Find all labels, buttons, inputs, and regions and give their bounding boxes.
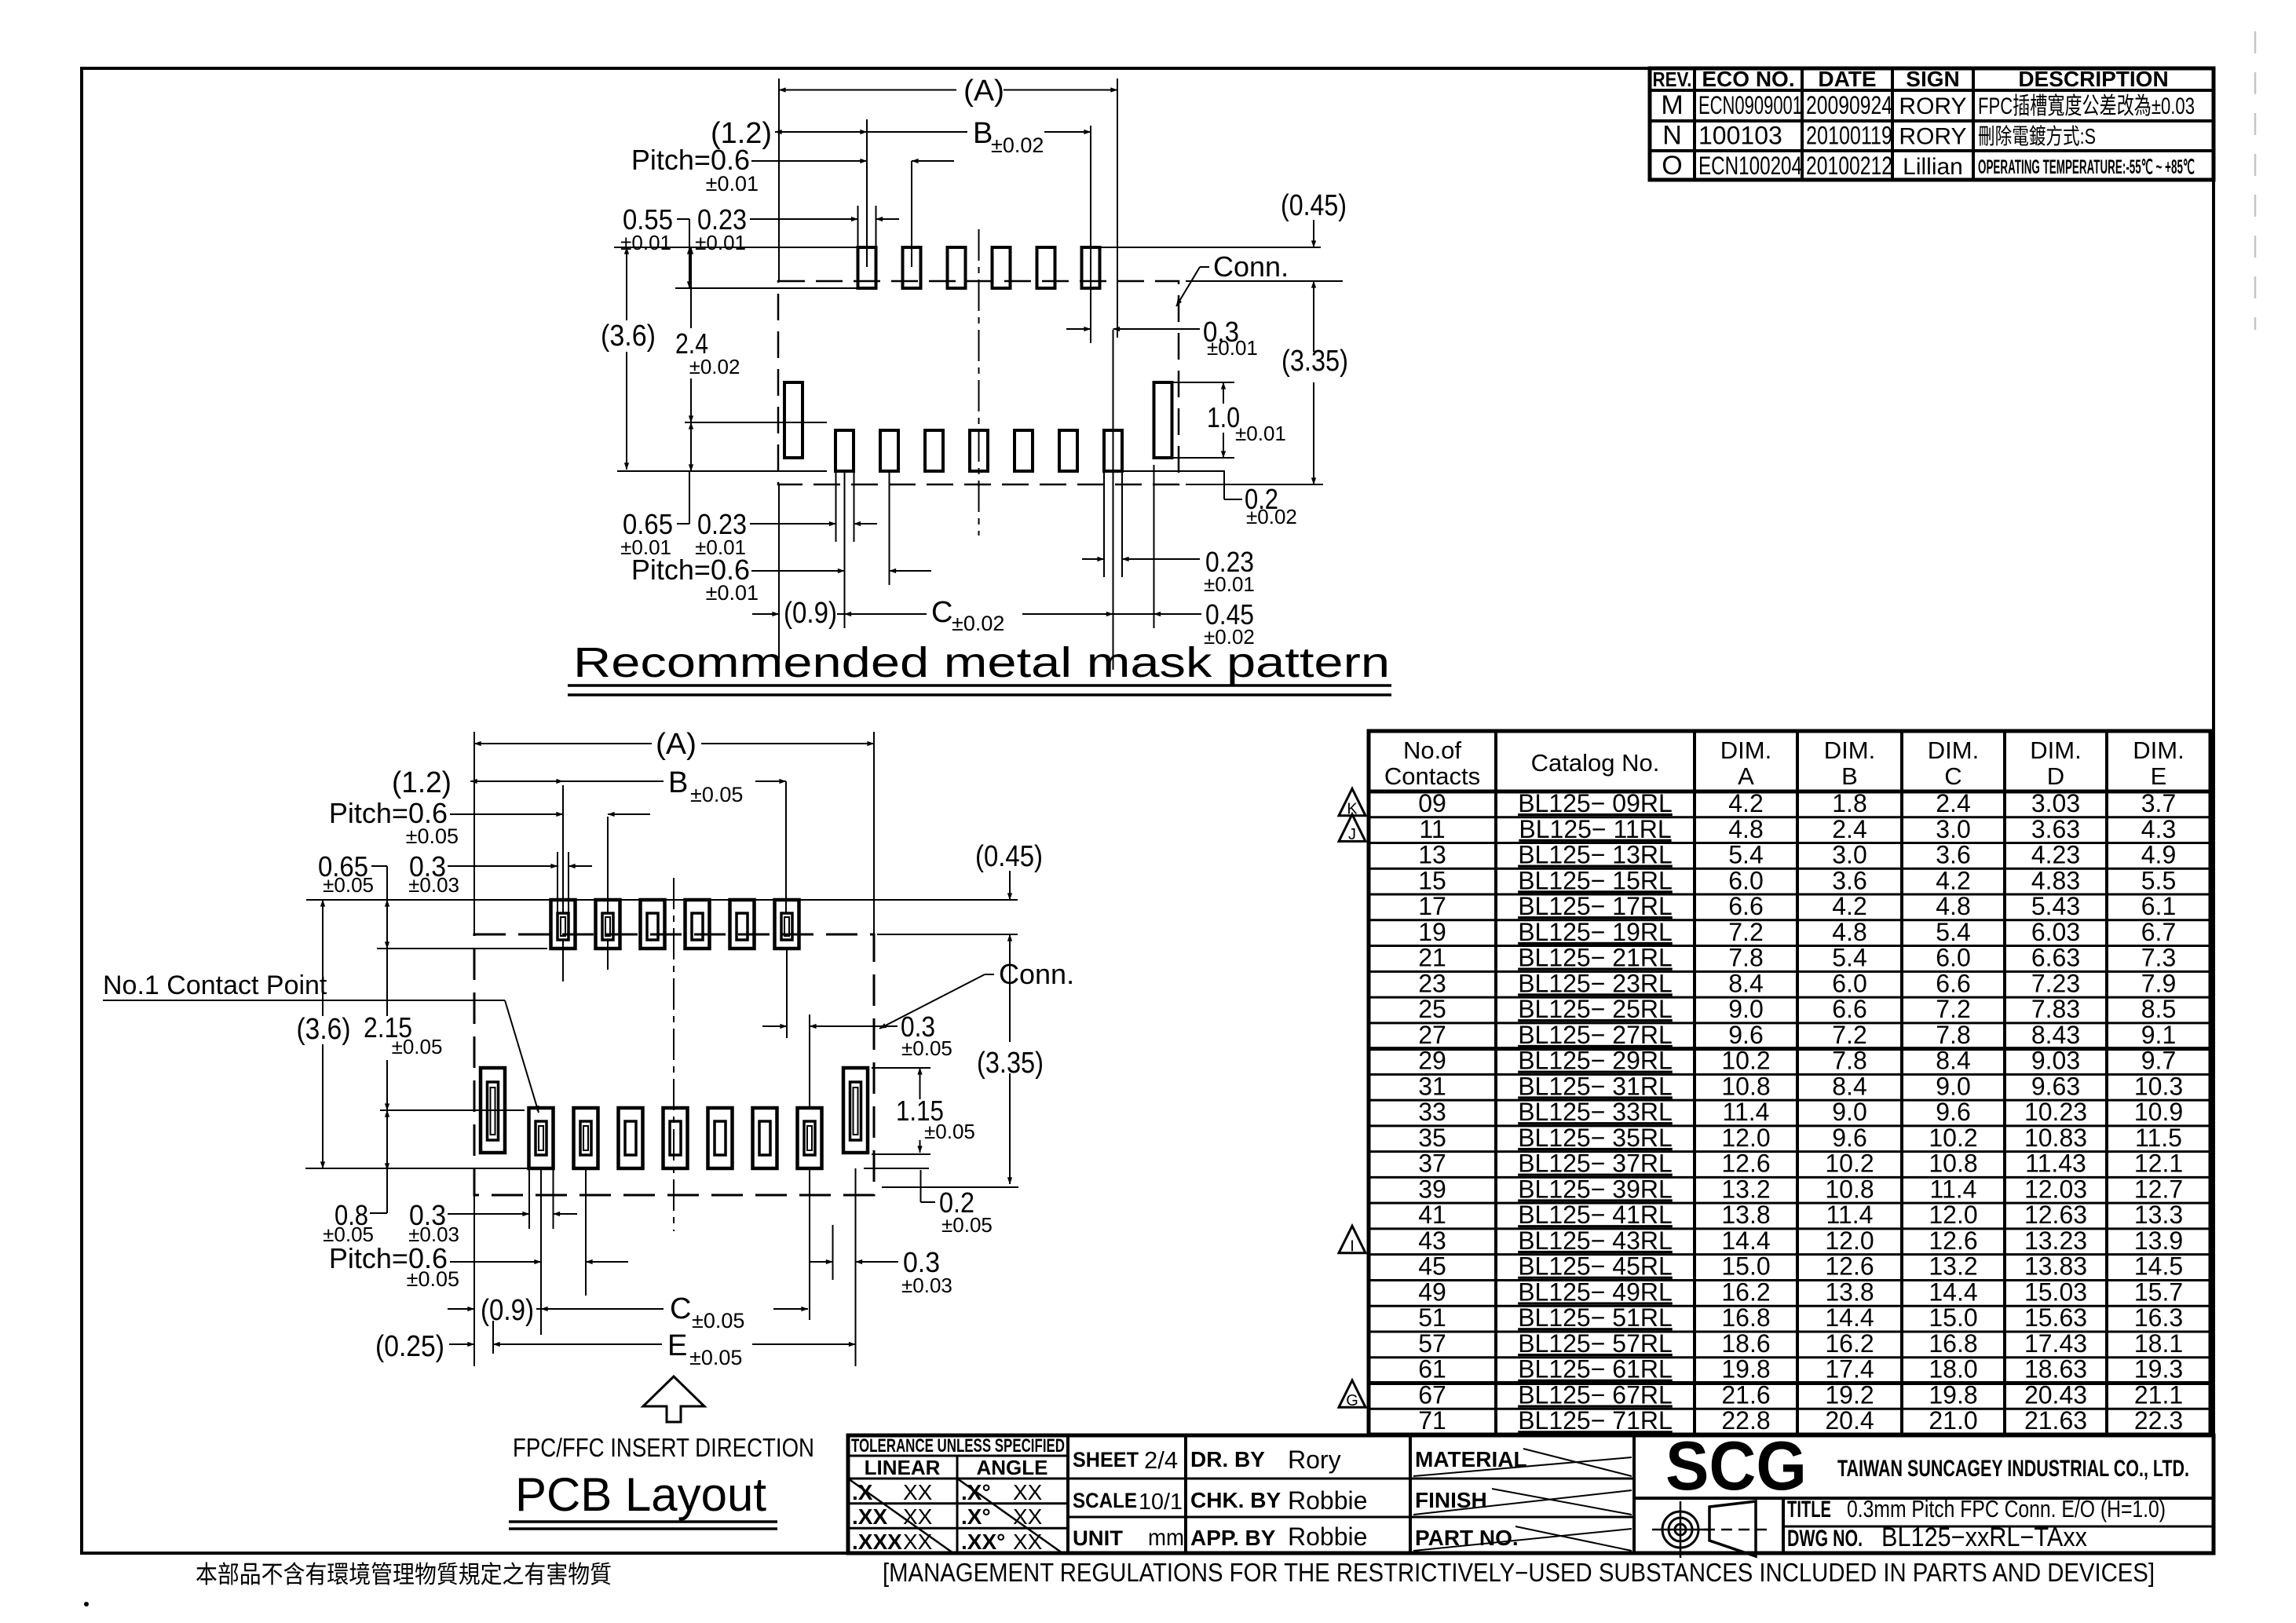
svg-text:XX: XX — [903, 1530, 933, 1554]
dim pitch top — [751, 160, 867, 162]
svg-text:BL125− 29RL: BL125− 29RL — [1518, 1047, 1673, 1075]
svg-text:4.2: 4.2 — [1728, 789, 1763, 817]
svg-text:.X°: .X° — [961, 1504, 991, 1529]
svg-text:5.5: 5.5 — [2141, 866, 2176, 894]
svg-text:No.of: No.of — [1403, 737, 1461, 764]
svg-text:10.2: 10.2 — [1825, 1150, 1874, 1178]
svg-text:14.4: 14.4 — [1825, 1303, 1874, 1332]
extension lines — [778, 79, 780, 281]
svg-text:19.2: 19.2 — [1825, 1380, 1874, 1409]
dim (1.2) pcb — [470, 780, 563, 782]
svg-text:±0.05: ±0.05 — [323, 873, 374, 897]
svg-text:7.23: 7.23 — [2031, 969, 2080, 997]
svg-text:ECN0909001: ECN0909001 — [1698, 91, 1802, 119]
svg-text:10.23: 10.23 — [2024, 1098, 2087, 1126]
svg-text:2.4: 2.4 — [1936, 789, 1970, 817]
svg-text:BL125− 09RL: BL125− 09RL — [1518, 789, 1673, 817]
svg-text:±0.01: ±0.01 — [1207, 336, 1258, 360]
svg-text:ECO NO.: ECO NO. — [1702, 67, 1794, 91]
svg-text:5.4: 5.4 — [1832, 944, 1866, 972]
svg-text:D: D — [2047, 762, 2064, 790]
svg-text:PART NO.: PART NO. — [1415, 1526, 1519, 1550]
svg-text:Catalog No.: Catalog No. — [1531, 749, 1660, 777]
svg-text:BL125− 51RL: BL125− 51RL — [1518, 1303, 1673, 1332]
svg-text:±0.05: ±0.05 — [924, 1120, 975, 1143]
svg-text:J: J — [1348, 826, 1356, 843]
svg-text:12.63: 12.63 — [2024, 1201, 2087, 1229]
svg-text:XX: XX — [1013, 1504, 1043, 1529]
svg-text:43: 43 — [1418, 1226, 1446, 1255]
svg-text:09: 09 — [1418, 789, 1446, 817]
svg-text:5.43: 5.43 — [2031, 892, 2080, 920]
dim (1.2) — [775, 131, 867, 133]
svg-text:10.3: 10.3 — [2134, 1072, 2183, 1100]
svg-text:BL125− 13RL: BL125− 13RL — [1518, 841, 1673, 869]
svg-text:(0.45): (0.45) — [975, 840, 1043, 873]
svg-text:12.0: 12.0 — [1825, 1226, 1874, 1255]
svg-text:3.6: 3.6 — [1832, 866, 1866, 894]
material finish part cells — [1632, 1435, 1636, 1553]
svg-text:31: 31 — [1418, 1072, 1446, 1100]
svg-text:9.6: 9.6 — [1832, 1124, 1866, 1152]
svg-text:DIM.: DIM. — [2133, 737, 2184, 764]
vertical centerline — [978, 229, 980, 536]
svg-text:Pitch=0.6: Pitch=0.6 — [631, 144, 750, 176]
revision table — [1650, 68, 2214, 180]
svg-text:TOLERANCE UNLESS SPECIFIED: TOLERANCE UNLESS SPECIFIED — [851, 1435, 1065, 1457]
svg-text:±0.01: ±0.01 — [1204, 572, 1255, 596]
svg-text:15.03: 15.03 — [2024, 1278, 2087, 1306]
svg-text:BL125− 19RL: BL125− 19RL — [1518, 918, 1673, 946]
svg-text:6.7: 6.7 — [2141, 918, 2176, 946]
svg-text:11.4: 11.4 — [1930, 1175, 1977, 1203]
company logo block — [1634, 1497, 2214, 1500]
svg-text:16.8: 16.8 — [1721, 1303, 1770, 1332]
dim (A) pcb — [474, 743, 652, 744]
svg-text:21.0: 21.0 — [1929, 1406, 1977, 1435]
svg-text:.XXX: .XXX — [852, 1530, 902, 1554]
svg-text:12.0: 12.0 — [1721, 1124, 1770, 1152]
svg-text:±0.02: ±0.02 — [991, 133, 1044, 157]
svg-text:15.0: 15.0 — [1721, 1252, 1770, 1281]
svg-text:21.1: 21.1 — [2134, 1380, 2183, 1409]
svg-text:刪除電鍍方式:S: 刪除電鍍方式:S — [1978, 124, 2096, 148]
svg-text:19.8: 19.8 — [1929, 1380, 1977, 1409]
svg-text:O: O — [1662, 151, 1682, 181]
svg-text:6.6: 6.6 — [1936, 969, 1970, 997]
svg-text:BL125− 31RL: BL125− 31RL — [1518, 1072, 1673, 1100]
svg-text:17: 17 — [1418, 892, 1446, 920]
svg-text:20100212: 20100212 — [1806, 152, 1892, 180]
fold mark dashed grey line — [2254, 31, 2257, 330]
svg-text:4.8: 4.8 — [1832, 918, 1866, 946]
svg-text:18.6: 18.6 — [1721, 1329, 1770, 1358]
svg-text:20.43: 20.43 — [2024, 1380, 2087, 1409]
svg-text:.XX°: .XX° — [961, 1530, 1005, 1554]
svg-text:8.5: 8.5 — [2141, 995, 2176, 1023]
svg-text:XX: XX — [903, 1480, 933, 1504]
dim C pcb — [541, 1308, 664, 1310]
svg-text:6.63: 6.63 — [2031, 944, 2080, 972]
svg-text:13.23: 13.23 — [2024, 1226, 2087, 1255]
svg-text:本部品不含有環境管理物質規定之有害物質: 本部品不含有環境管理物質規定之有害物質 — [196, 1561, 612, 1588]
svg-text:BL125− 49RL: BL125− 49RL — [1518, 1278, 1673, 1306]
svg-text:9.6: 9.6 — [1728, 1021, 1763, 1049]
left anchor pad — [784, 382, 803, 458]
svg-text:N: N — [1662, 120, 1682, 150]
svg-text:9.1: 9.1 — [2141, 1021, 2176, 1049]
svg-text:RORY: RORY — [1899, 123, 1966, 149]
svg-text:11.4: 11.4 — [1723, 1098, 1770, 1126]
svg-text:Contacts: Contacts — [1384, 762, 1480, 790]
svg-text:3.6: 3.6 — [1936, 841, 1970, 869]
svg-text:27: 27 — [1418, 1021, 1446, 1049]
svg-text:4.2: 4.2 — [1832, 892, 1866, 920]
dim 2.15 pcb — [386, 949, 388, 1016]
dim (3.6) pcb — [322, 900, 324, 1016]
svg-text:(0.25): (0.25) — [375, 1330, 444, 1363]
main dimension table — [1369, 731, 2210, 1435]
right anchor pad — [843, 1068, 868, 1153]
svg-text:±0.01: ±0.01 — [706, 172, 759, 196]
svg-text:25: 25 — [1418, 995, 1446, 1023]
svg-text:10.8: 10.8 — [1825, 1175, 1874, 1203]
svg-text:±0.05: ±0.05 — [692, 1309, 744, 1332]
svg-text:±0.05: ±0.05 — [407, 1267, 459, 1291]
svg-text:4.3: 4.3 — [2141, 815, 2176, 843]
svg-text:TITLE: TITLE — [1787, 1497, 1831, 1522]
svg-text:51: 51 — [1418, 1303, 1446, 1332]
svg-text:14.4: 14.4 — [1929, 1278, 1977, 1306]
svg-text:±0.01: ±0.01 — [1235, 422, 1286, 445]
svg-text:9.03: 9.03 — [2031, 1047, 2080, 1075]
svg-text:SIGN: SIGN — [1906, 67, 1959, 91]
svg-text:No.1 Contact Point: No.1 Contact Point — [103, 971, 327, 1000]
svg-text:13.9: 13.9 — [2134, 1226, 2183, 1255]
svg-text:DIM.: DIM. — [1824, 737, 1875, 764]
svg-text:mm: mm — [1148, 1525, 1184, 1551]
svg-text:15.7: 15.7 — [2134, 1278, 2183, 1306]
svg-text:SHEET: SHEET — [1073, 1448, 1139, 1471]
svg-text:8.4: 8.4 — [1936, 1047, 1970, 1075]
svg-text:16.2: 16.2 — [1825, 1329, 1874, 1358]
svg-text:39: 39 — [1418, 1175, 1446, 1203]
svg-text:APP. BY: APP. BY — [1190, 1526, 1276, 1550]
svg-text:10.2: 10.2 — [1721, 1047, 1770, 1075]
svg-text:15: 15 — [1418, 866, 1446, 894]
dim 2.4 — [690, 247, 692, 328]
bottom row pads (land + paste) — [529, 1108, 554, 1168]
svg-text:±0.03: ±0.03 — [901, 1274, 952, 1297]
svg-text:4.8: 4.8 — [1936, 892, 1970, 920]
svg-text:±0.05: ±0.05 — [406, 824, 459, 848]
svg-text:4.83: 4.83 — [2031, 866, 2080, 894]
svg-text:(3.6): (3.6) — [601, 320, 656, 353]
svg-text:11.4: 11.4 — [1826, 1201, 1874, 1229]
svg-text:9.0: 9.0 — [1832, 1098, 1866, 1126]
svg-text:11.43: 11.43 — [2025, 1150, 2086, 1178]
right anchor pad — [1154, 382, 1172, 458]
svg-text:BL125− 61RL: BL125− 61RL — [1518, 1355, 1673, 1384]
dim C — [845, 613, 927, 615]
svg-text:XX: XX — [903, 1504, 933, 1529]
connector outline (dashed) — [474, 934, 874, 1195]
svg-text:E: E — [2151, 762, 2167, 790]
svg-text:DATE: DATE — [1818, 67, 1876, 91]
svg-text:11.5: 11.5 — [2135, 1124, 2182, 1152]
svg-text:FINISH: FINISH — [1415, 1488, 1487, 1512]
svg-text:16.3: 16.3 — [2134, 1303, 2183, 1332]
svg-text:9.63: 9.63 — [2031, 1072, 2080, 1100]
svg-text:CHK. BY: CHK. BY — [1190, 1488, 1281, 1512]
svg-text:7.8: 7.8 — [1728, 944, 1763, 972]
fpc insert arrow — [643, 1376, 704, 1422]
svg-text:±0.01: ±0.01 — [706, 581, 759, 605]
svg-text:6.0: 6.0 — [1728, 866, 1763, 894]
svg-text:7.8: 7.8 — [1936, 1021, 1970, 1049]
svg-text:BL125− 45RL: BL125− 45RL — [1518, 1252, 1673, 1281]
extension lines — [473, 732, 475, 934]
svg-text:BL125− 35RL: BL125− 35RL — [1518, 1124, 1673, 1152]
svg-text:OPERATING TEMPERATURE:-55℃ ~ +: OPERATING TEMPERATURE:-55℃ ~ +85℃ — [1978, 156, 2195, 178]
svg-text:±0.05: ±0.05 — [941, 1213, 993, 1237]
svg-text:BL125− 57RL: BL125− 57RL — [1518, 1329, 1673, 1358]
vertical centerline — [673, 878, 675, 1231]
svg-text:21.63: 21.63 — [2024, 1406, 2087, 1435]
svg-text:33: 33 — [1418, 1098, 1446, 1126]
svg-text:(0.9): (0.9) — [481, 1294, 534, 1327]
svg-text:.XX: .XX — [852, 1504, 887, 1529]
svg-text:0.3mm Pitch FPC Conn. E/O (H=1: 0.3mm Pitch FPC Conn. E/O (H=1.0) — [1847, 1495, 2166, 1522]
svg-text:PCB Layout: PCB Layout — [515, 1468, 766, 1521]
svg-text:12.03: 12.03 — [2024, 1175, 2087, 1203]
svg-text:19: 19 — [1418, 918, 1446, 946]
svg-text:10.8: 10.8 — [1721, 1072, 1770, 1100]
svg-text:12.6: 12.6 — [1721, 1150, 1770, 1178]
svg-text:49: 49 — [1418, 1278, 1446, 1306]
svg-text:Lillian: Lillian — [1903, 154, 1963, 180]
svg-text:B: B — [668, 766, 688, 799]
svg-text:15.63: 15.63 — [2024, 1303, 2087, 1332]
svg-text:37: 37 — [1418, 1150, 1446, 1178]
svg-text:67: 67 — [1418, 1380, 1446, 1409]
svg-text:±0.05: ±0.05 — [690, 783, 743, 806]
svg-text:10.83: 10.83 — [2024, 1124, 2087, 1152]
svg-text:6.6: 6.6 — [1832, 995, 1866, 1023]
tolerance table — [1066, 1435, 1069, 1553]
svg-text:71: 71 — [1418, 1406, 1446, 1435]
svg-text:RORY: RORY — [1899, 93, 1966, 119]
connector outline (dashed) — [778, 281, 1179, 484]
svg-text:DIM.: DIM. — [1720, 737, 1771, 764]
svg-text:±0.01: ±0.01 — [620, 231, 671, 254]
svg-text:M: M — [1661, 90, 1683, 120]
svg-text:B: B — [973, 117, 993, 150]
svg-text:5.4: 5.4 — [1728, 841, 1763, 869]
svg-text:7.2: 7.2 — [1728, 918, 1763, 946]
svg-text:XX: XX — [1013, 1480, 1043, 1504]
svg-text:17.43: 17.43 — [2024, 1329, 2087, 1358]
dim (0.9) — [752, 613, 779, 615]
svg-text:BL125− 33RL: BL125− 33RL — [1518, 1098, 1673, 1126]
svg-text:3.0: 3.0 — [1832, 841, 1866, 869]
svg-text:9.6: 9.6 — [1936, 1098, 1970, 1126]
svg-text:12.7: 12.7 — [2134, 1175, 2183, 1203]
svg-text:19.8: 19.8 — [1721, 1355, 1770, 1384]
svg-text:BL125− 17RL: BL125− 17RL — [1518, 892, 1673, 920]
svg-text:I: I — [1350, 1237, 1355, 1255]
svg-text:(A): (A) — [963, 75, 1004, 108]
svg-text:13: 13 — [1418, 841, 1446, 869]
svg-text:14.4: 14.4 — [1721, 1226, 1770, 1255]
svg-text:7.2: 7.2 — [1832, 1021, 1866, 1049]
svg-text:29: 29 — [1418, 1047, 1446, 1075]
svg-text:DESCRIPTION: DESCRIPTION — [2018, 67, 2168, 91]
svg-text:4.2: 4.2 — [1936, 866, 1970, 894]
svg-text:3.63: 3.63 — [2031, 815, 2080, 843]
svg-text:±0.02: ±0.02 — [952, 612, 1004, 635]
svg-text:DWG NO.: DWG NO. — [1787, 1526, 1863, 1552]
svg-text:BL125− 23RL: BL125− 23RL — [1518, 969, 1673, 997]
revision triangles — [1339, 788, 1366, 815]
svg-text:B: B — [1841, 762, 1858, 790]
svg-text:100103: 100103 — [1698, 121, 1782, 149]
svg-text:12.0: 12.0 — [1929, 1201, 1977, 1229]
svg-text:21.6: 21.6 — [1721, 1380, 1770, 1409]
svg-text:Robbie: Robbie — [1288, 1522, 1367, 1551]
svg-text:13.2: 13.2 — [1929, 1252, 1977, 1281]
svg-text:21: 21 — [1418, 944, 1446, 972]
svg-text:SCALE: SCALE — [1073, 1489, 1137, 1512]
dim (A) — [779, 90, 956, 91]
svg-text:3.03: 3.03 — [2031, 789, 2080, 817]
svg-text:3.7: 3.7 — [2141, 789, 2176, 817]
svg-text:8.4: 8.4 — [1832, 1072, 1866, 1100]
svg-text:9.0: 9.0 — [1936, 1072, 1970, 1100]
svg-text:BL125− 37RL: BL125− 37RL — [1518, 1150, 1673, 1178]
svg-text:6.0: 6.0 — [1832, 969, 1866, 997]
svg-text:13.3: 13.3 — [2134, 1201, 2183, 1229]
svg-text:17.4: 17.4 — [1825, 1355, 1874, 1384]
svg-text:20090924: 20090924 — [1806, 91, 1892, 119]
svg-text:C: C — [1944, 762, 1961, 790]
svg-text:9.7: 9.7 — [2141, 1047, 2176, 1075]
third angle projection symbol — [1675, 1524, 1686, 1535]
svg-text:ECN100204: ECN100204 — [1698, 152, 1802, 180]
svg-text:6.0: 6.0 — [1936, 944, 1970, 972]
svg-text:±0.03: ±0.03 — [408, 873, 459, 897]
svg-text:ANGLE: ANGLE — [977, 1456, 1048, 1479]
svg-text:DR. BY: DR. BY — [1190, 1447, 1265, 1471]
svg-text:LINEAR: LINEAR — [865, 1456, 941, 1479]
svg-text:(1.2): (1.2) — [392, 766, 452, 799]
svg-text:1.8: 1.8 — [1832, 789, 1866, 817]
svg-text:UNIT: UNIT — [1073, 1526, 1124, 1550]
svg-text:13.8: 13.8 — [1721, 1201, 1770, 1229]
svg-text:8.4: 8.4 — [1728, 969, 1763, 997]
svg-text:3.0: 3.0 — [1936, 815, 1970, 843]
svg-text:BL125− 15RL: BL125− 15RL — [1518, 866, 1673, 894]
svg-text:45: 45 — [1418, 1252, 1446, 1281]
svg-text:BL125− 41RL: BL125− 41RL — [1518, 1201, 1673, 1229]
dim E pcb — [449, 1343, 474, 1345]
svg-text:Conn.: Conn. — [1213, 250, 1289, 283]
svg-text:2.4: 2.4 — [1832, 815, 1866, 843]
svg-text:BL125− 11RL: BL125− 11RL — [1519, 815, 1671, 843]
svg-text:C: C — [670, 1292, 691, 1325]
svg-text:7.2: 7.2 — [1936, 995, 1970, 1023]
svg-text:REV.: REV. — [1653, 68, 1692, 91]
svg-text:±0.02: ±0.02 — [1246, 505, 1297, 528]
title block — [848, 1435, 2214, 1553]
svg-text:4.23: 4.23 — [2031, 841, 2080, 869]
top row solder pads — [858, 247, 876, 288]
svg-text:61: 61 — [1418, 1355, 1446, 1384]
svg-text:(0.45): (0.45) — [1281, 189, 1347, 222]
svg-text:6.1: 6.1 — [2141, 892, 2176, 920]
svg-text:DIM.: DIM. — [2030, 737, 2081, 764]
dim (0.9) pcb — [448, 1308, 474, 1310]
svg-text:41: 41 — [1418, 1201, 1446, 1229]
svg-text:±0.05: ±0.05 — [392, 1035, 443, 1058]
svg-text:±0.05: ±0.05 — [689, 1346, 742, 1369]
svg-text:7.8: 7.8 — [1832, 1047, 1866, 1075]
svg-text:35: 35 — [1418, 1124, 1446, 1152]
svg-text:A: A — [1738, 762, 1754, 790]
svg-text:BL125− 27RL: BL125− 27RL — [1518, 1021, 1673, 1049]
svg-text:14.5: 14.5 — [2134, 1252, 2183, 1281]
svg-text:2/4: 2/4 — [1144, 1446, 1178, 1474]
svg-text:BL125− 71RL: BL125− 71RL — [1518, 1406, 1673, 1435]
svg-text:SCG: SCG — [1665, 1427, 1807, 1504]
svg-text:9.0: 9.0 — [1728, 995, 1763, 1023]
svg-text:23: 23 — [1418, 969, 1446, 997]
svg-text:20100119: 20100119 — [1806, 121, 1892, 149]
svg-text:18.1: 18.1 — [2134, 1329, 2183, 1358]
svg-text:6.03: 6.03 — [2031, 918, 2080, 946]
svg-text:16.8: 16.8 — [1929, 1329, 1977, 1358]
svg-text:[MANAGEMENT REGULATIONS FOR TH: [MANAGEMENT REGULATIONS FOR THE RESTRICT… — [883, 1558, 2155, 1587]
svg-text:(0.9): (0.9) — [784, 597, 837, 630]
dim pitch pcb top — [450, 813, 563, 815]
stray dot bottom-left — [84, 1602, 89, 1607]
svg-text:18.0: 18.0 — [1929, 1355, 1977, 1384]
top row pads (land + paste) — [551, 900, 576, 949]
svg-text:BL125− 25RL: BL125− 25RL — [1518, 995, 1673, 1023]
svg-text:XX: XX — [1013, 1530, 1043, 1554]
svg-text:13.2: 13.2 — [1721, 1175, 1770, 1203]
svg-text:7.3: 7.3 — [2141, 944, 2176, 972]
svg-text:11: 11 — [1419, 815, 1445, 843]
svg-text:±0.02: ±0.02 — [689, 355, 740, 378]
dim (3.6) — [626, 247, 627, 320]
svg-text:15.0: 15.0 — [1929, 1303, 1977, 1332]
svg-text:4.9: 4.9 — [2141, 841, 2176, 869]
svg-text:G: G — [1346, 1392, 1358, 1409]
svg-text:Conn.: Conn. — [999, 958, 1074, 990]
svg-text:Rory: Rory — [1288, 1446, 1341, 1474]
svg-text:16.2: 16.2 — [1721, 1278, 1770, 1306]
svg-text:12.6: 12.6 — [1929, 1226, 1977, 1255]
svg-text:TAIWAN SUNCAGEY INDUSTRIAL CO.: TAIWAN SUNCAGEY INDUSTRIAL CO., LTD. — [1837, 1456, 2189, 1482]
bottom row solder pads — [835, 430, 854, 471]
svg-text:FPC/FFC INSERT DIRECTION: FPC/FFC INSERT DIRECTION — [513, 1433, 814, 1462]
svg-text:FPC插槽寬度公差改為±0.03: FPC插槽寬度公差改為±0.03 — [1978, 93, 2195, 119]
svg-text:8.43: 8.43 — [2031, 1021, 2080, 1049]
svg-text:BL125− 43RL: BL125− 43RL — [1518, 1226, 1673, 1255]
svg-text:6.6: 6.6 — [1728, 892, 1763, 920]
dim B — [867, 131, 967, 133]
